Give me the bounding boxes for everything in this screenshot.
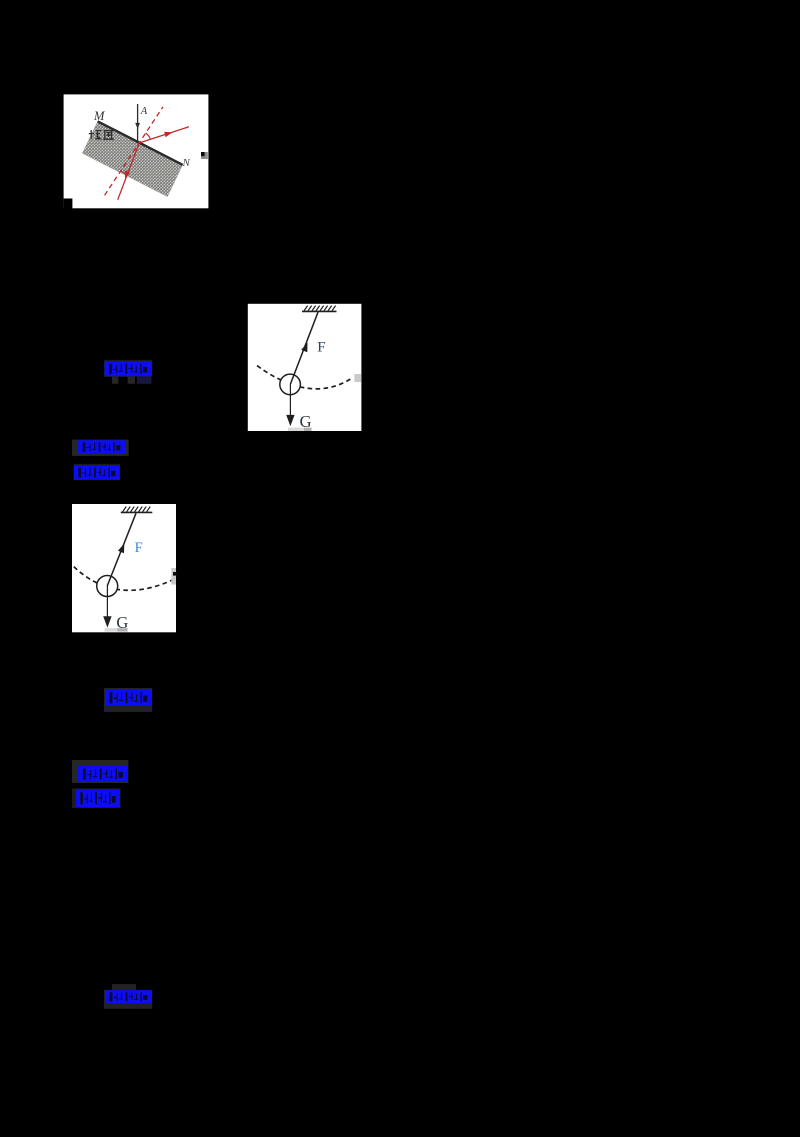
handle strip bottom fig2 xyxy=(288,428,312,431)
force F arrowhead xyxy=(301,343,307,353)
handle right edge fig2 xyxy=(354,374,361,382)
weight G arrow xyxy=(103,586,111,628)
handle right edge fig3 xyxy=(171,568,177,585)
ceiling with hatching xyxy=(302,306,337,312)
dashed trajectory arc xyxy=(257,366,353,389)
reflected red ray xyxy=(139,127,189,143)
incident ray A (black, vertical, arrowhead mid) xyxy=(135,104,140,143)
svg-text:A: A xyxy=(140,106,148,117)
bob circle xyxy=(280,374,301,395)
string xyxy=(290,312,318,384)
angle arc above surface xyxy=(146,133,151,139)
svg-text:M: M xyxy=(93,109,105,123)
weight G arrow xyxy=(286,384,294,426)
handle strip bottom fig3 xyxy=(105,628,128,631)
resize handle right of figure 1 xyxy=(201,152,208,159)
dashed red normal line xyxy=(105,107,163,196)
dashed trajectory arc xyxy=(74,567,173,591)
bob circle xyxy=(97,576,118,597)
svg-text:F: F xyxy=(135,540,143,556)
ceiling with hatching xyxy=(121,507,153,513)
figure 1 white panel xyxy=(64,94,209,208)
svg-text:F: F xyxy=(317,340,325,356)
string xyxy=(107,513,136,586)
angle arc below surface xyxy=(121,171,127,174)
force F arrowhead xyxy=(118,544,124,554)
glass slab (halftone parallelogram) xyxy=(82,121,182,196)
玻璃 glyph blocks xyxy=(89,130,114,139)
figure 2 white panel xyxy=(248,304,362,431)
figure 3 white panel xyxy=(72,504,176,632)
slab top edge line xyxy=(98,121,183,164)
svg-text:N: N xyxy=(182,157,191,169)
notch (black) bottom-left of panel xyxy=(64,199,73,209)
refracted red ray xyxy=(118,144,139,200)
